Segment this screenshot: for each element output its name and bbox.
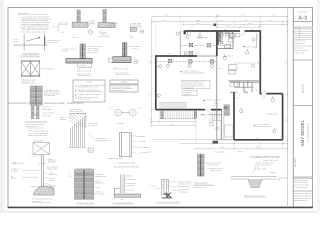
- svg-text:LOT 12 SOMEWHERE ST: LOT 12 SOMEWHERE ST: [306, 123, 309, 143]
- right stub deck: [213, 110, 220, 120]
- garage/left wing divider: [216, 31, 218, 56]
- left dim line: [150, 18, 152, 126]
- big room bottom wall: [234, 139, 283, 141]
- anchor bolt detail: [14, 34, 48, 51]
- interior walls light: [201, 31, 261, 140]
- door swings: [191, 31, 267, 119]
- porch ticks above wall: [160, 103, 186, 110]
- sheet border frame: [8, 8, 313, 208]
- pier pads with X: [168, 43, 213, 63]
- arrow notes: [180, 71, 182, 72]
- kitchen counter: [229, 33, 257, 74]
- garage door jamb: [184, 30, 186, 34]
- sheet edge shading: [0, 0, 4, 213]
- closet walls: [229, 81, 261, 87]
- col footing detail 1: [77, 10, 80, 22]
- deck below left wing: [160, 110, 194, 119]
- left wing left wall: [155, 55, 157, 109]
- hall texts: [214, 100, 219, 107]
- pier at living wall: [184, 51, 193, 55]
- stairs hatch lower: [224, 105, 230, 116]
- svg-text:PLAN: PLAN: [88, 150, 92, 152]
- svg-text:PROJECT:: PROJECT:: [294, 157, 297, 167]
- dim marker blob: [214, 24, 217, 27]
- col footing detail 2: [103, 10, 106, 23]
- right section top wall: [217, 30, 260, 32]
- big room left wall: [233, 92, 235, 140]
- WALLS: [156, 30, 283, 139]
- laundry rects: [230, 82, 234, 87]
- bottom heavy border: [8, 206, 313, 208]
- bath fixtures upper: [220, 32, 233, 48]
- top dimension line: [153, 16, 288, 27]
- big room right wall: [282, 94, 284, 140]
- sheet number box: [293, 20, 312, 22]
- hall wall line: [223, 116, 225, 140]
- x-brace detail: [21, 60, 40, 76]
- top detail 3: [130, 22, 143, 29]
- garage left wall (light): [179, 31, 181, 56]
- deck post right: [194, 110, 196, 118]
- mid ladder footing: [113, 57, 131, 63]
- dashed beam lines: [157, 45, 261, 63]
- left dim extension at big-room line: [151, 139, 234, 141]
- brick wall section hatched: [30, 86, 42, 105]
- kitchen note arrow: [242, 46, 245, 47]
- stairs hatch upper: [216, 32, 219, 45]
- bottom dims: [180, 144, 287, 149]
- mid ladder column: [122, 43, 127, 57]
- svg-text:A9740413.JPG (JPEG Image, 3500: A9740413.JPG (JPEG Image, 3500x2328 pixe…: [9, 102, 84, 105]
- left wing top wall: [156, 55, 197, 57]
- svg-text:WOOD FENCE DETAIL: WOOD FENCE DETAIL: [118, 162, 136, 165]
- bath fixtures lower: [210, 118, 233, 137]
- notes boxes in plan: [182, 80, 210, 88]
- circle tags with leaders: [156, 32, 276, 133]
- garage top wall: [186, 30, 217, 32]
- svg-text:ALT. GARAGE DOOR OPENING: ALT. GARAGE DOOR OPENING: [114, 166, 139, 169]
- footing strip dark: [66, 59, 92, 63]
- svg-text:BUILDER: BUILDER: [301, 84, 304, 93]
- misc plan dim texts: [168, 28, 267, 140]
- title block left border: [292, 8, 294, 208]
- cross marker: [224, 106, 227, 109]
- drawing area right border: [286, 8, 288, 208]
- small x-box detail lower-left: [33, 143, 50, 161]
- extension lines below plan: [196, 120, 283, 149]
- right outer wall: [259, 30, 261, 93]
- title marker dark box: [213, 141, 219, 144]
- firm box: [293, 176, 312, 178]
- lower hatched columns: [31, 105, 34, 119]
- left bottom dims: [151, 122, 196, 126]
- post+footing detail bottom-left: [34, 155, 55, 195]
- revision table: [293, 27, 312, 38]
- bracket right of notes: [57, 27, 59, 31]
- door frame elevation: [120, 133, 132, 157]
- svg-text:SCALE: 1/4" = 1'-0": SCALE: 1/4" = 1'-0": [263, 159, 278, 162]
- soil notes paragraph: [20, 16, 52, 34]
- upper-right room top wall: [260, 93, 283, 95]
- svg-text:FOUNDATION PLAN: FOUNDATION PLAN: [250, 155, 279, 159]
- box below: [78, 63, 92, 67]
- left wing bottom wall: [156, 109, 222, 111]
- right dim line: [286, 18, 288, 152]
- info rows: [293, 39, 312, 41]
- svg-text:AMY MODEL: AMY MODEL: [300, 119, 305, 146]
- extension lines: [151, 18, 282, 110]
- lower left small notes: [28, 130, 49, 137]
- svg-text:A-3: A-3: [298, 15, 307, 21]
- garage door header line: [180, 30, 183, 32]
- garage interface wall (light): [197, 55, 217, 57]
- left wall-footing detail: stem: [80, 44, 85, 59]
